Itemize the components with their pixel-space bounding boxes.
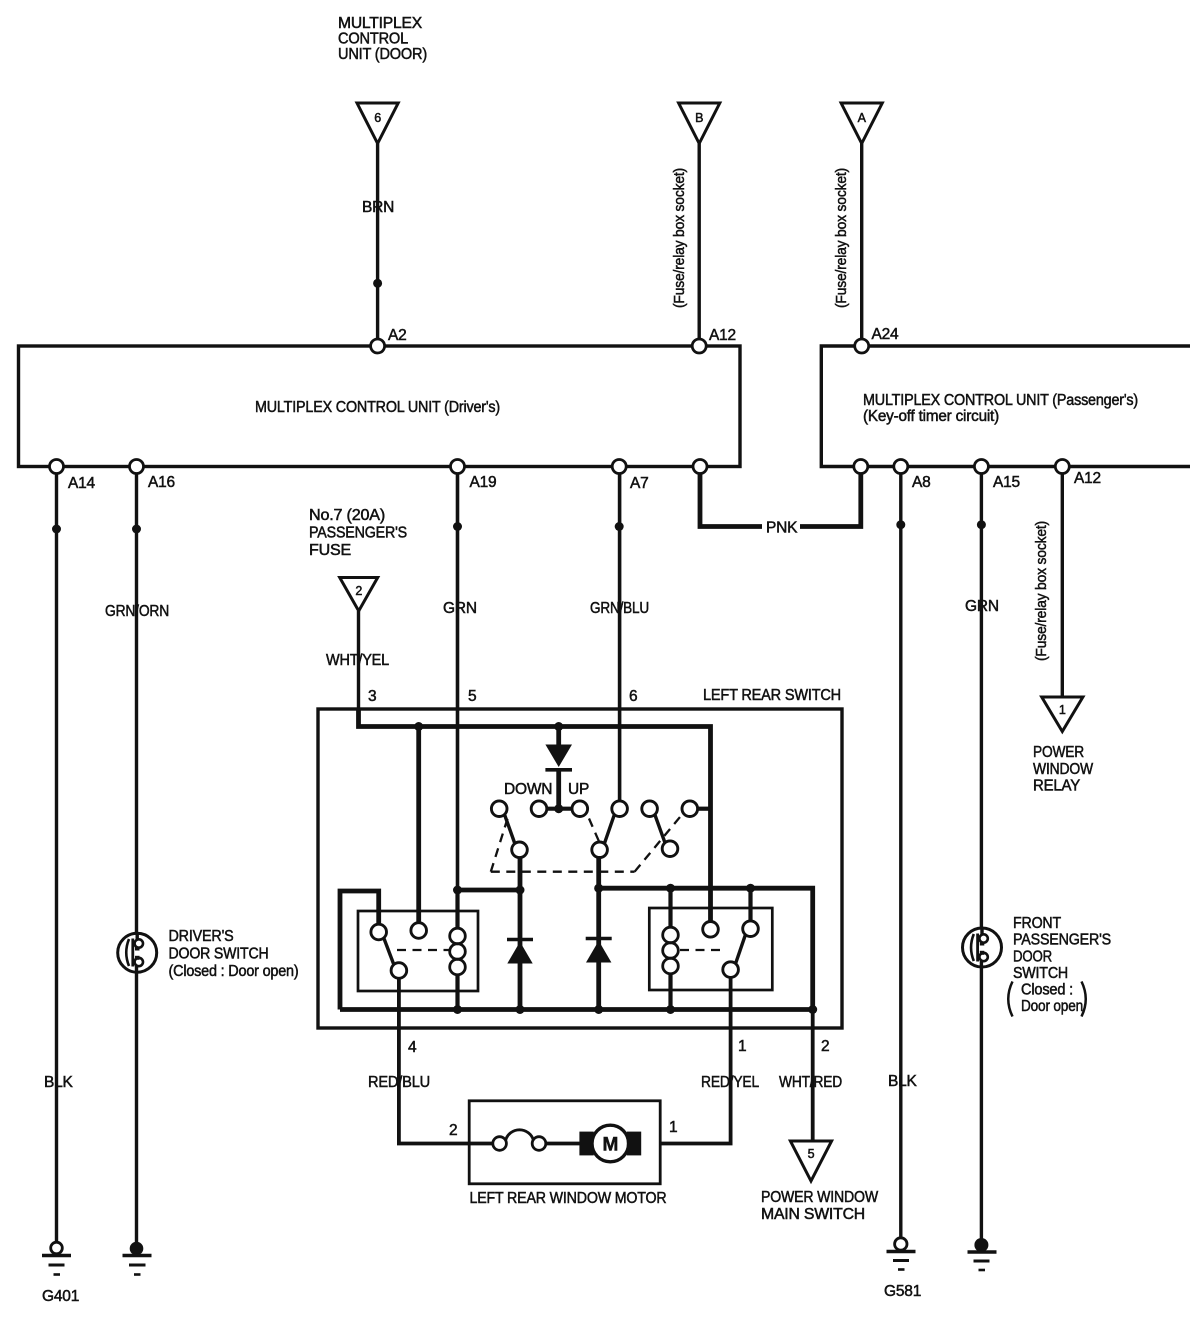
- connector triangle B: [679, 103, 720, 144]
- junction dot (670.5,888.2): [666, 884, 675, 893]
- svg-text:A2: A2: [388, 327, 407, 344]
- wire from connector A to A24: [860, 144, 863, 347]
- svg-text:RED/YEL: RED/YEL: [701, 1074, 760, 1091]
- relay 1 box: [358, 911, 478, 991]
- svg-text:Closed :: Closed :: [1021, 982, 1073, 999]
- svg-text:RED/BLU: RED/BLU: [368, 1074, 430, 1091]
- svg-text:MULTIPLEX CONTROL UNIT (Driver: MULTIPLEX CONTROL UNIT (Driver's): [255, 399, 500, 416]
- fuse connector triangle 2: [340, 578, 378, 612]
- svg-text:GRN: GRN: [443, 600, 477, 617]
- svg-text:WHT/RED: WHT/RED: [779, 1074, 842, 1091]
- svg-text:GRN/BLU: GRN/BLU: [590, 600, 649, 617]
- svg-text:FUSE: FUSE: [309, 542, 351, 559]
- svg-text:A8: A8: [912, 474, 931, 491]
- svg-text:B: B: [695, 111, 703, 125]
- wire A16 lower segment: [135, 965, 138, 1245]
- svg-text:1: 1: [669, 1119, 677, 1136]
- svg-text:2: 2: [449, 1122, 457, 1139]
- svg-text:PASSENGER'S: PASSENGER'S: [309, 525, 407, 542]
- wire and diode D3 (flyback right, cathode up): [586, 888, 612, 1009]
- ground G581: [884, 1238, 921, 1300]
- svg-text:(Fuse/relay box socket): (Fuse/relay box socket): [833, 168, 850, 308]
- svg-text:A7: A7: [630, 475, 649, 492]
- relay 2 NO contact circle: [703, 922, 719, 938]
- svg-text:GRN/ORN: GRN/ORN: [105, 603, 169, 620]
- terminal A19: [451, 460, 465, 474]
- connector triangle 6: [357, 103, 398, 144]
- connector triangle 1 power window relay: [1042, 697, 1083, 732]
- svg-text:PNK: PNK: [766, 520, 798, 537]
- wire A19 / GRN pin 5: [456, 467, 460, 891]
- wire pin 1 from relay2 moving contact to motor: [660, 977, 730, 1143]
- wire A16 upper segment: [135, 467, 138, 942]
- front passenger's door switch symbol: [963, 928, 1002, 967]
- svg-text:WHT/YEL: WHT/YEL: [326, 652, 390, 669]
- box LEFT REAR SWITCH: [318, 709, 842, 1028]
- contact circle c5: [642, 801, 658, 817]
- connector triangle 5 power window main switch: [790, 1141, 831, 1181]
- svg-text:No.7 (20A): No.7 (20A): [309, 507, 385, 524]
- dashed rocker linkage trapezoid: [491, 816, 681, 872]
- box MULTIPLEX CONTROL UNIT (Passenger's): [821, 346, 1190, 467]
- junction dot (598.7,888.2): [594, 884, 603, 893]
- svg-text:CONTROL: CONTROL: [338, 31, 409, 48]
- svg-text:POWER: POWER: [1033, 744, 1084, 761]
- contact circle c6: [682, 801, 698, 817]
- relay 2 switch arm: [736, 935, 746, 964]
- svg-text:RELAY: RELAY: [1033, 778, 1080, 795]
- wire b1 down to junction: [518, 858, 523, 891]
- svg-text:5: 5: [808, 1147, 815, 1161]
- switch arm 3: [655, 815, 665, 843]
- wire WHT/YEL pin 3: [357, 611, 360, 711]
- svg-text:1: 1: [1059, 703, 1066, 717]
- ground (A15, filled): [968, 1238, 997, 1270]
- relay 2 box: [649, 908, 772, 990]
- switch arm 1: [505, 815, 515, 844]
- wire A7 / GRN/BLU pin 6: [618, 467, 622, 802]
- svg-text:M: M: [602, 1135, 618, 1156]
- relay 1 common contact circle: [371, 924, 387, 940]
- rocker common bar with junction dot: [539, 807, 580, 811]
- svg-text:FRONT: FRONT: [1013, 915, 1062, 932]
- svg-text:6: 6: [629, 688, 637, 705]
- terminal A14: [50, 460, 64, 474]
- svg-text:BLK: BLK: [888, 1073, 918, 1090]
- svg-text:A15: A15: [993, 474, 1020, 491]
- svg-text:A16: A16: [148, 474, 175, 491]
- contact circle b2: [592, 842, 608, 858]
- relay 1 NO contact circle: [411, 923, 427, 939]
- svg-text:DOOR SWITCH: DOOR SWITCH: [169, 946, 269, 963]
- svg-text:UP: UP: [568, 781, 589, 798]
- relay 1 coil: [450, 890, 466, 1010]
- wire A8 / BLK to ground: [899, 467, 902, 1245]
- svg-text:MULTIPLEX CONTROL UNIT (Passen: MULTIPLEX CONTROL UNIT (Passenger's): [863, 392, 1138, 409]
- relay 2 moving contact circle: [723, 962, 739, 978]
- box LEFT REAR WINDOW MOTOR: [469, 1101, 660, 1184]
- wire A15 lower segment: [980, 960, 983, 1245]
- svg-text:5: 5: [468, 688, 476, 705]
- bus junction dots: [453, 1005, 462, 1014]
- svg-text:4: 4: [408, 1039, 417, 1056]
- connector triangle A: [841, 103, 882, 144]
- diode D1 top (cathode down): [545, 727, 572, 809]
- wire A14 to ground: [55, 467, 58, 1244]
- svg-text:A14: A14: [68, 475, 96, 492]
- svg-text:POWER WINDOW: POWER WINDOW: [761, 1189, 879, 1206]
- svg-text:DOWN: DOWN: [504, 781, 552, 798]
- terminal PNK left: [693, 460, 707, 474]
- svg-text:BRN: BRN: [362, 199, 394, 216]
- relay 1 dashed actuation link: [397, 949, 449, 951]
- wire from connector B to A12: [698, 144, 701, 347]
- svg-text:LEFT REAR WINDOW MOTOR: LEFT REAR WINDOW MOTOR: [470, 1190, 667, 1207]
- relay 2 dashed actuation link: [680, 949, 723, 951]
- wire c6 to right vertical: [698, 807, 711, 811]
- junction dot top bus at x558.7: [554, 722, 563, 731]
- svg-text:BLK: BLK: [44, 1074, 74, 1091]
- svg-text:DOOR: DOOR: [1013, 949, 1052, 966]
- svg-text:6: 6: [374, 111, 381, 125]
- label FRONT PASSENGER'S DOOR SWITCH: [1008, 915, 1111, 1017]
- wire pin3 to top bus: [359, 709, 711, 922]
- ground (A16, filled): [123, 1242, 152, 1275]
- junction row left: horizontal wire: [458, 888, 521, 893]
- splice dot on BRN wire: [373, 279, 382, 288]
- relay 1 moving contact circle: [391, 963, 407, 979]
- svg-text:MULTIPLEX: MULTIPLEX: [338, 15, 423, 32]
- terminal A16: [130, 460, 144, 474]
- junction dot (520,890): [516, 886, 525, 895]
- contact circle c2 (DOWN side): [531, 801, 547, 817]
- svg-text:SWITCH: SWITCH: [1013, 965, 1068, 982]
- wire b2 down to right junction row: [596, 856, 601, 888]
- splice dot on A14 wire: [52, 525, 61, 534]
- motor M with brushes: [579, 1125, 641, 1162]
- contact circle c1: [491, 801, 507, 817]
- wire A12 to power window relay: [1061, 467, 1064, 698]
- wire and diode D2 (flyback left, cathode up): [507, 890, 533, 1010]
- wire connector to motor: [546, 1142, 580, 1146]
- fuse label No.7 (20A) PASSENGER'S FUSE: [309, 507, 407, 559]
- terminal A2: [371, 339, 385, 353]
- svg-text:G401: G401: [42, 1288, 79, 1305]
- switch arm 2: [604, 815, 614, 844]
- label DRIVER'S DOOR SWITCH: [169, 928, 299, 980]
- svg-text:A12: A12: [709, 327, 736, 344]
- splice dot on A8 wire: [896, 520, 905, 529]
- box MULTIPLEX CONTROL UNIT (Driver's): [19, 346, 741, 467]
- svg-text:A19: A19: [470, 474, 497, 491]
- wire pin 2 (WHT/RED) down to main switch connector: [811, 1010, 815, 1142]
- wire relay2 top contact to junction row: [748, 888, 752, 921]
- splice dot on A7 wire: [615, 522, 624, 531]
- svg-text:PASSENGER'S: PASSENGER'S: [1013, 932, 1111, 949]
- contact circle b1: [512, 842, 528, 858]
- wire A15 / GRN upper segment: [980, 467, 983, 937]
- svg-text:WINDOW: WINDOW: [1033, 761, 1094, 778]
- svg-text:(Fuse/relay box socket): (Fuse/relay box socket): [1033, 521, 1050, 661]
- contact circle c3 (UP side): [572, 801, 588, 817]
- svg-text:MAIN SWITCH: MAIN SWITCH: [761, 1206, 865, 1223]
- terminal A7: [612, 460, 626, 474]
- svg-text:(Key-off timer circuit): (Key-off timer circuit): [863, 408, 999, 425]
- svg-text:Door open: Door open: [1021, 998, 1083, 1015]
- junction dot (750.5,888.2): [746, 884, 755, 893]
- junction dot top bus at x418.7: [414, 722, 423, 731]
- svg-text:A: A: [858, 111, 867, 125]
- driver's door switch symbol: [118, 933, 157, 972]
- terminal A15: [974, 460, 988, 474]
- svg-text:LEFT REAR SWITCH: LEFT REAR SWITCH: [703, 687, 841, 704]
- terminal A12 bottom: [1055, 460, 1069, 474]
- svg-text:G581: G581: [884, 1283, 921, 1300]
- svg-text:(Closed : Door open): (Closed : Door open): [169, 963, 299, 980]
- terminal A24: [855, 339, 869, 353]
- svg-text:1: 1: [738, 1038, 746, 1055]
- wire relay1 common to bottom bus (elbow): [340, 891, 379, 1010]
- svg-text:(Fuse/relay box socket): (Fuse/relay box socket): [671, 168, 688, 308]
- splice dot on A16 wire: [132, 525, 141, 534]
- svg-text:2: 2: [355, 584, 362, 598]
- label POWER WINDOW MAIN SWITCH: [761, 1189, 879, 1223]
- relay 2 coil: [663, 888, 679, 1009]
- junction row right: horizontal wire with corner down to bus: [599, 888, 813, 1009]
- title text MULTIPLEX CONTROL UNIT (DOOR): [338, 15, 427, 63]
- svg-text:DRIVER'S: DRIVER'S: [169, 928, 234, 945]
- wire BRN from connector 6 to A2: [376, 144, 379, 347]
- svg-text:A24: A24: [872, 326, 900, 343]
- junction dot (457.5,890): [453, 886, 462, 895]
- svg-text:2: 2: [821, 1038, 829, 1055]
- svg-text:3: 3: [368, 688, 376, 705]
- contact circle b3: [662, 841, 678, 857]
- relay 2 moving-side top contact circle: [743, 921, 759, 937]
- wire PNK: [700, 467, 861, 527]
- terminal PNK right: [854, 460, 868, 474]
- relay 1 switch arm: [384, 938, 394, 965]
- contact circle c4: [612, 801, 628, 817]
- splice dot on A15 wire: [977, 520, 986, 529]
- inline connector circles with hump: [493, 1130, 546, 1151]
- svg-text:GRN: GRN: [965, 598, 999, 615]
- terminal A8: [894, 460, 908, 474]
- svg-text:UNIT (DOOR): UNIT (DOOR): [338, 46, 427, 63]
- ground G401: [42, 1242, 79, 1305]
- svg-text:A12: A12: [1074, 470, 1101, 487]
- splice dot on A19 wire: [453, 522, 462, 531]
- label POWER WINDOW RELAY: [1033, 744, 1094, 795]
- wire to left relay NO contact: [416, 727, 421, 923]
- terminal A12 top: [692, 339, 706, 353]
- wire pin 4 from relay1 moving contact: [399, 978, 493, 1143]
- bottom bus: [340, 1007, 813, 1012]
